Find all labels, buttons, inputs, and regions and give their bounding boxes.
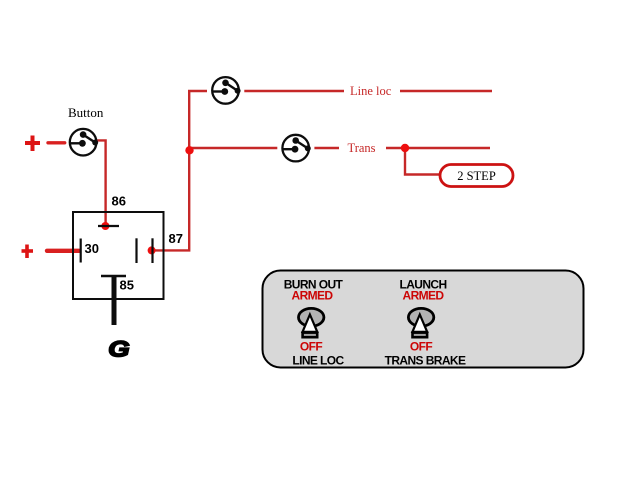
svg-text:87: 87 — [169, 231, 183, 246]
svg-text:OFF: OFF — [410, 340, 432, 354]
svg-text:2 STEP: 2 STEP — [457, 169, 496, 183]
svg-text:OFF: OFF — [300, 340, 322, 354]
svg-text:ARMED: ARMED — [292, 289, 334, 303]
svg-text:LINE LOC: LINE LOC — [292, 354, 344, 368]
svg-text:85: 85 — [120, 277, 134, 292]
svg-text:TRANS BRAKE: TRANS BRAKE — [385, 354, 466, 368]
svg-text:Trans: Trans — [348, 141, 376, 155]
svg-text:30: 30 — [85, 241, 99, 256]
svg-text:ARMED: ARMED — [403, 289, 445, 303]
svg-text:Button: Button — [68, 105, 104, 120]
svg-text:Line loc: Line loc — [350, 84, 392, 98]
svg-text:G: G — [108, 337, 129, 362]
svg-text:86: 86 — [112, 194, 126, 209]
